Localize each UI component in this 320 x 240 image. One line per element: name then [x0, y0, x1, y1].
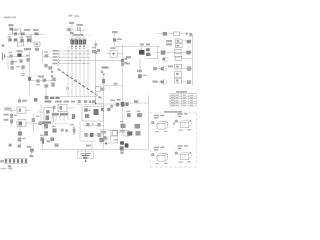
battery B1 plates	[3, 53, 5, 61]
power resistor dark	[127, 131, 132, 135]
dashed section border left	[149, 150, 151, 166]
value label for L1	[70, 124, 74, 125]
wire branch y104 right of bus	[104, 103, 130, 105]
wire vertical x110 lower	[110, 136, 112, 142]
pin dots under opto bank	[71, 45, 85, 47]
marker below cluster	[120, 151, 123, 153]
speaker hookup diagram bottom-left	[151, 147, 167, 165]
dashed shield line	[66, 35, 92, 37]
value label for C8	[120, 121, 124, 122]
label IC1 opto bank	[73, 34, 84, 36]
terminal J1 marks	[35, 48, 39, 51]
value label for R12	[127, 111, 131, 112]
value label for F1	[8, 36, 12, 37]
output coupling dark cluster	[120, 141, 129, 150]
labels mid row	[42, 113, 68, 124]
wire branch y85	[104, 82, 123, 85]
value label for RN1	[92, 47, 96, 48]
optocoupler U4	[83, 40, 86, 44]
wire center top edge	[50, 96, 96, 98]
wire branch y103 left	[92, 100, 104, 104]
capacitor C3 with label	[77, 24, 84, 31]
wire grid verticals from opto bank	[68, 47, 88, 97]
wire vertical branch x31	[31, 34, 33, 43]
wire top-right branch	[130, 100, 149, 103]
diode D5 with label	[113, 38, 122, 41]
connector lug top-left corner	[2, 44, 5, 47]
volume pot box B dark	[17, 120, 26, 127]
optocoupler U3	[79, 40, 82, 44]
capacitor C7 on bus	[102, 79, 105, 84]
value label for output cluster	[114, 139, 117, 140]
optocoupler U1	[71, 40, 74, 44]
component on bus x122	[121, 62, 130, 66]
volume pot box A	[17, 107, 30, 113]
wire bias row	[30, 80, 57, 82]
pin numbers on opto bank	[71, 48, 85, 49]
resistor R2 with label	[33, 29, 39, 35]
resistor R13	[137, 113, 142, 117]
wire vertical bus x122	[122, 45, 124, 131]
wire stub into regulator	[141, 46, 143, 50]
wire input left	[4, 108, 17, 111]
footer text bottom-left	[1, 168, 13, 170]
wire long rail to regulator	[115, 45, 160, 47]
wire vertical x46	[45, 84, 47, 97]
label pot P2	[18, 97, 27, 103]
value label for R10	[51, 80, 54, 81]
polarity mark between columns	[173, 123, 175, 125]
emitter follower marks	[54, 144, 58, 147]
wire pot link	[26, 114, 33, 133]
optocoupler U2	[75, 40, 78, 44]
coupling cap cluster left-bottom	[27, 146, 34, 157]
value label for R15	[14, 115, 17, 116]
wire from battery	[4, 55, 29, 57]
wire top link y104	[76, 103, 104, 105]
output stage Q3 row	[161, 49, 193, 57]
wire vertical stage rail	[29, 52, 31, 97]
input caps pair top	[111, 99, 121, 101]
dashed section border top	[151, 112, 197, 114]
driver pair dark cluster	[101, 102, 128, 111]
output stage Q2 resistor pair	[166, 39, 192, 48]
capacitor C8 pair mid	[120, 124, 140, 136]
decoupling caps row	[78, 100, 91, 103]
relay K2 marks	[53, 106, 56, 110]
label VR1	[69, 22, 74, 24]
reservoir capacitor C12 with frame	[78, 145, 94, 163]
value label for R17	[22, 138, 25, 139]
value label for C9	[143, 75, 146, 76]
label stage text dark	[101, 66, 109, 73]
table cell entries	[171, 95, 193, 106]
wire vertical x37 down	[36, 46, 38, 52]
relay K1 box	[12, 29, 20, 34]
value label for R5	[9, 52, 13, 53]
dash row sense line	[52, 122, 68, 124]
junction dots on grid	[67, 50, 88, 64]
pins above opto bank	[72, 36, 84, 39]
wire right rail vertical	[191, 34, 193, 86]
preset trimmer VR2 box with label	[96, 86, 105, 91]
wire bottom link of sub-circuit	[80, 141, 96, 149]
resistor R16	[32, 118, 35, 122]
ground symbol under R3	[70, 32, 74, 35]
ground symbol GND1	[21, 74, 26, 77]
relay K3 box	[58, 104, 75, 112]
wire vertical from rail	[20, 34, 22, 43]
inductor column left of box	[72, 114, 75, 119]
feedback network box	[100, 130, 118, 143]
interstage box with dot	[106, 47, 123, 57]
resistor R15 stack	[10, 110, 13, 126]
junction on y60 rail	[121, 58, 128, 64]
circle marker under diagonal	[66, 87, 69, 90]
wire top-left horizontal rail	[8, 33, 44, 35]
wire to ground	[22, 70, 24, 74]
value label near bias cluster	[36, 84, 40, 85]
transistor Q4 with emitter circle	[162, 56, 192, 61]
wire grid mid verticals	[52, 112, 68, 121]
output selection table	[170, 94, 196, 106]
transformer T1 with label	[26, 36, 32, 42]
wire center top right segment	[95, 97, 97, 104]
feedback caps stack x46	[44, 124, 48, 136]
sub-circuit row y125	[84, 123, 104, 127]
ladder input label	[0, 160, 4, 162]
wire bottom rail	[41, 148, 149, 150]
rectifier BR1 box	[34, 42, 40, 46]
diode D2	[14, 38, 18, 41]
capacitor C5	[26, 58, 29, 62]
labels above regulator	[140, 43, 150, 45]
filter ladder top rail	[4, 158, 28, 160]
dashed section border bottom	[151, 166, 197, 168]
thermistor RT1	[11, 66, 14, 69]
connector wire extension to bus	[90, 59, 123, 61]
resistor R5	[9, 54, 12, 57]
label left of regulator	[126, 56, 131, 58]
wire left rail x42	[42, 50, 44, 63]
value label for R7	[17, 66, 20, 67]
switch S1 box	[18, 42, 24, 46]
sub-circuit row y135	[84, 133, 104, 137]
fuse F1	[8, 38, 11, 41]
diode D3 dark with label	[17, 50, 23, 57]
zener diode trio dark cluster	[139, 48, 150, 56]
wire mid horizontal	[66, 29, 86, 31]
resistor R10	[51, 82, 54, 86]
resistor R12	[127, 113, 131, 117]
wire to amp input	[33, 122, 44, 126]
table title text	[176, 91, 187, 93]
diode network marks	[61, 129, 68, 132]
speaker hookup diagram top-right	[175, 113, 191, 131]
section title bottom-right	[164, 111, 182, 113]
wire feeding opto bank	[77, 36, 79, 39]
sense resistor vertical with dot	[104, 138, 108, 145]
wire bus above opto bank	[69, 38, 87, 40]
resistor R18 pair	[40, 137, 54, 141]
value label for C11	[52, 126, 56, 127]
left drop of sub-circuit	[79, 121, 81, 141]
capacitor C9 below regulator	[137, 59, 142, 80]
label above jack box dark	[45, 100, 52, 102]
wire vertical antenna stub	[71, 24, 73, 30]
wire harness horizontal runs	[60, 51, 91, 64]
label row under top edge	[50, 97, 75, 103]
inductor L1 vertical	[73, 126, 76, 135]
bias network labels	[36, 75, 55, 82]
note text above top-center circuit	[69, 15, 80, 17]
connector P1 pin labels	[53, 50, 58, 64]
wire main vertical bus x103	[103, 73, 105, 149]
speaker hookup diagram bottom-right	[175, 145, 191, 163]
transistor Q8 left	[18, 126, 22, 148]
capacitor C2	[20, 39, 23, 42]
diode D4 on branch	[43, 54, 50, 57]
resistor R9 pair lower-left	[34, 96, 49, 102]
page title text top-left	[4, 17, 16, 19]
value label for R13	[137, 111, 141, 112]
capacitor C6 cluster	[44, 64, 52, 70]
output stage Q1 row	[163, 32, 193, 36]
label D5 rail	[112, 31, 118, 33]
resistor R17	[18, 138, 22, 142]
resistor R1 with value label	[9, 24, 14, 30]
resistor pair labels left	[4, 114, 9, 121]
ladder ground mark	[8, 165, 11, 167]
control logic box center	[82, 107, 104, 122]
capacitor C4	[19, 59, 22, 62]
value label for C2	[20, 37, 24, 38]
ground stub marks	[9, 144, 21, 148]
wire link y132	[118, 130, 133, 132]
wire grid right edge vertical x95	[94, 40, 97, 104]
wire vertical into D5	[114, 34, 116, 46]
resistor R6 on x12	[10, 58, 13, 68]
transistor Q5 group	[153, 64, 192, 77]
emitter resistor dark on rail	[28, 77, 31, 81]
filter ladder capacitors	[5, 159, 27, 163]
resistor R7	[21, 65, 24, 69]
resistor R14	[99, 138, 104, 142]
polarity marks left of bus	[51, 71, 54, 77]
value label for R6	[14, 61, 17, 62]
resistor R8	[44, 84, 48, 87]
resistor network RN1	[92, 49, 100, 53]
value label for C5	[26, 55, 30, 56]
wire vertical drop x80	[80, 30, 82, 35]
electrolytic cap C11	[52, 128, 56, 132]
junction dots where diagonal meets columns	[67, 75, 84, 87]
value label for R18	[40, 135, 44, 136]
dashed baseline bottom-left	[10, 166, 30, 168]
capacitor C1 with label	[21, 29, 31, 35]
wire regulator output branch	[146, 46, 158, 59]
wire vertical x8	[7, 56, 9, 70]
connector P1 pin circles	[57, 50, 59, 65]
wire diagonal bus with taps	[58, 68, 102, 98]
resistor R3	[67, 28, 70, 31]
wire stubs left of output column	[155, 34, 163, 82]
value label for D4	[44, 51, 48, 52]
value label for R16	[36, 116, 39, 117]
capacitor C10	[120, 138, 122, 140]
wire vertical x41	[40, 104, 42, 125]
label Q7 stage	[24, 48, 31, 50]
speaker hookup diagram top-left	[151, 115, 167, 133]
diode D1	[14, 32, 17, 35]
wire corner feed component	[31, 140, 50, 154]
wire right edge vertical x148	[148, 96, 150, 150]
bias diodes boxes	[111, 130, 129, 136]
value label for D1	[14, 30, 18, 32]
input jack box tall	[44, 108, 54, 123]
hatch slits in opto bank	[72, 40, 84, 44]
dashed section border right	[196, 113, 198, 165]
transistor Q6 group	[153, 78, 193, 84]
filter ladder bottom rail	[4, 163, 28, 165]
wire stub into jack box	[38, 111, 44, 113]
